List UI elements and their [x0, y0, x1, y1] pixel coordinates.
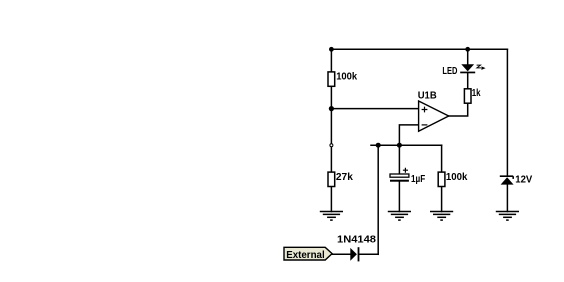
svg-text:100k: 100k — [336, 72, 357, 83]
op-amp U1B plus pin mark — [422, 107, 428, 113]
svg-text:External: External — [286, 250, 325, 261]
ground zener — [496, 212, 519, 221]
wire right rail down to zener — [506, 49, 508, 175]
ground left rail — [320, 212, 343, 221]
wire capacitor to ground — [398, 182, 400, 212]
ground capacitor — [388, 212, 411, 221]
junction noninverting node — [329, 106, 334, 111]
op-amp U1B minus pin mark — [422, 124, 428, 126]
zener diode D2 cathode bar — [500, 176, 513, 179]
wire left rail top to R1 — [330, 49, 332, 72]
wire capacitor top stem — [398, 145, 400, 174]
wire noninverting input — [331, 108, 418, 110]
junction capacitor on feedback bus — [397, 143, 402, 148]
svg-text:1µF: 1µF — [411, 174, 425, 185]
capacitor C1 top plate — [390, 174, 409, 177]
wire R3 top stem — [441, 145, 443, 172]
svg-text:LED: LED — [442, 66, 457, 77]
LED light emission arrow — [477, 65, 481, 68]
wire flag to diode D1 — [332, 253, 350, 255]
wire top rail — [331, 48, 507, 50]
svg-text:27k: 27k — [336, 172, 353, 183]
op-amp U1B triangle — [419, 101, 449, 131]
wire inverting input — [399, 125, 418, 145]
LED anode triangle — [461, 64, 474, 71]
LED cathode bar — [460, 72, 475, 74]
zener diode D2 anode triangle — [501, 177, 514, 184]
diode D1 cathode bar — [358, 247, 360, 261]
svg-text:U1B: U1B — [418, 91, 437, 102]
resistor R3 100k body — [438, 172, 445, 186]
net flag External — [284, 247, 332, 260]
junction riser on feedback bus — [376, 143, 381, 148]
wire diode D1 to riser — [359, 253, 378, 255]
svg-text:12V: 12V — [515, 175, 532, 186]
capacitor C1 bottom plate — [390, 180, 409, 182]
wire R4 to LED — [467, 73, 469, 89]
svg-text:1k: 1k — [472, 88, 481, 99]
resistor R4 1k body — [464, 89, 471, 103]
resistor R1 100k body — [328, 72, 335, 86]
wire riser to feedback bus — [377, 145, 379, 254]
diode D1 anode triangle — [350, 248, 357, 261]
svg-text:100k: 100k — [446, 172, 468, 183]
resistor R2 27k body — [328, 172, 335, 186]
capacitor C1 polarity plus — [403, 168, 408, 173]
node marker open dot on left rail — [330, 144, 333, 147]
junction top-left corner — [329, 47, 334, 52]
ground R3 — [430, 212, 453, 221]
svg-text:1N4148: 1N4148 — [337, 234, 376, 245]
junction LED top rail — [465, 47, 470, 52]
wire feedback bus — [371, 144, 442, 146]
wire opamp output to R4 — [449, 103, 468, 116]
wire left rail R1 to R2 — [330, 86, 332, 172]
wire R3 to ground — [441, 186, 443, 211]
wire R2 to ground — [330, 186, 332, 211]
wire LED to top rail — [467, 49, 469, 64]
wire zener anode to ground — [506, 184, 508, 211]
